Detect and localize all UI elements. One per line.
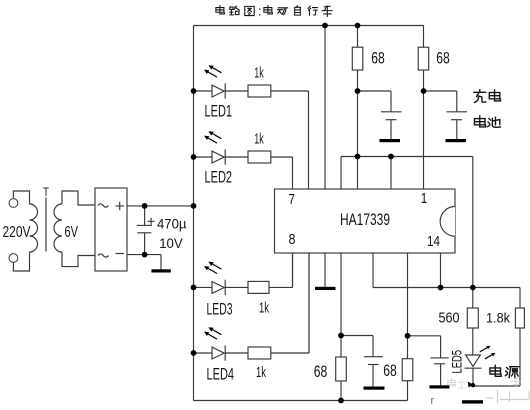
svg-text:7: 7 [289,191,296,208]
svg-text::: : [258,3,262,18]
svg-text:14: 14 [427,233,440,250]
svg-text:10V: 10V [159,236,183,251]
svg-text:LED2: LED2 [205,167,233,186]
svg-text:220V: 220V [3,224,31,241]
svg-text:1k: 1k [259,300,269,317]
svg-text:r: r [431,395,435,407]
svg-text:1: 1 [421,190,428,207]
svg-text:470µ: 470µ [157,216,187,231]
svg-text:T: T [43,185,50,199]
svg-text:1k: 1k [256,364,266,381]
svg-text:68: 68 [371,49,385,68]
svg-text:6V: 6V [65,224,79,241]
svg-text:LED1: LED1 [205,101,233,120]
svg-text:68: 68 [314,362,328,381]
svg-text:1.8k: 1.8k [486,309,511,325]
svg-text:LED4: LED4 [207,365,235,384]
svg-text:1k: 1k [254,131,264,148]
svg-text:HA17339: HA17339 [340,210,390,229]
svg-text:68: 68 [436,49,450,68]
svg-text:1k: 1k [254,65,264,82]
svg-text:LED3: LED3 [207,300,233,319]
svg-text:68: 68 [383,361,397,380]
svg-text:560: 560 [439,309,460,326]
svg-text:LED5: LED5 [449,350,465,374]
svg-text:8: 8 [289,231,296,248]
